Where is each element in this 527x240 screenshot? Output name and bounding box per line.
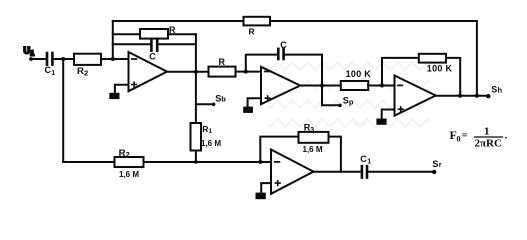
- wire: [195, 151, 197, 163]
- svg-text:R: R: [119, 148, 126, 159]
- resistor R2: [74, 54, 101, 78]
- wire: [261, 183, 271, 193]
- resistor R2 (1,6M): [115, 148, 144, 179]
- node U4 inverting input junction: [258, 160, 262, 164]
- resistor R3: [299, 123, 329, 154]
- wire: [382, 58, 419, 86]
- wire: [62, 59, 64, 162]
- svg-text:2: 2: [84, 68, 88, 77]
- svg-text:100 K: 100 K: [346, 69, 372, 79]
- svg-text:0: 0: [457, 135, 461, 144]
- node Sh output: [486, 85, 502, 99]
- wire top feedback line: [113, 20, 477, 22]
- wire: [195, 34, 197, 123]
- svg-text:C: C: [149, 52, 156, 62]
- node junction: [194, 160, 198, 164]
- svg-text:C: C: [280, 40, 287, 50]
- wire C rail: [113, 43, 196, 45]
- svg-text:2: 2: [126, 150, 130, 159]
- svg-text:1,6 M: 1,6 M: [303, 145, 323, 154]
- svg-text:R: R: [219, 57, 226, 67]
- svg-text:1: 1: [367, 159, 371, 166]
- svg-text:1: 1: [484, 126, 490, 138]
- wire: [382, 110, 395, 119]
- capacitor C1: [45, 53, 56, 77]
- wire: [236, 71, 262, 73]
- wire: [329, 137, 341, 172]
- formula F0 = 1/(2 pi RC): [450, 126, 508, 150]
- wire: [115, 85, 129, 93]
- wire: [368, 171, 434, 173]
- wire: [368, 85, 394, 87]
- capacitor C (U2 feedback): [278, 40, 287, 59]
- node U2 inverting input junction: [244, 70, 248, 74]
- svg-text:S: S: [432, 159, 438, 169]
- node U3 inverting input junction: [380, 84, 384, 88]
- resistor R (global feedback): [244, 17, 271, 37]
- capacitor C1 (output): [360, 154, 371, 178]
- svg-text:R: R: [249, 27, 255, 37]
- node U1 output junction: [194, 70, 198, 74]
- svg-text:R: R: [169, 25, 176, 35]
- svg-text:R: R: [77, 66, 84, 77]
- node B junction: [111, 57, 115, 61]
- wire: [285, 55, 322, 86]
- svg-text:S: S: [343, 95, 349, 105]
- op-amp U3: [395, 76, 436, 116]
- wire: [101, 58, 129, 60]
- node junction: [458, 94, 462, 98]
- resistor R (U1 feedback): [140, 25, 176, 39]
- wire: [167, 71, 209, 73]
- capacitor C (U1 feedback): [149, 39, 157, 62]
- svg-text:.: .: [505, 129, 508, 141]
- node U2 output junction: [320, 84, 324, 88]
- op-amp U1: [129, 52, 168, 91]
- wire: [300, 85, 341, 87]
- node U1 input terminal: [24, 46, 35, 61]
- op-amp U4: [271, 150, 314, 194]
- node junction: [475, 94, 479, 98]
- resistor R1: [191, 123, 222, 151]
- wire: [112, 21, 114, 59]
- svg-text:2πRC: 2πRC: [475, 137, 502, 149]
- svg-text:h: h: [498, 86, 503, 95]
- wire: [476, 21, 478, 96]
- svg-text:=: =: [462, 130, 468, 142]
- wire: [31, 58, 46, 60]
- wire: [260, 137, 298, 162]
- node Sr output: [432, 159, 442, 174]
- ground: [376, 119, 386, 125]
- wire bottom rail: [63, 161, 271, 163]
- ground: [243, 107, 253, 113]
- svg-text:1: 1: [209, 128, 213, 135]
- wire: [246, 55, 277, 72]
- wire: [54, 58, 74, 60]
- svg-text:1,6 M: 1,6 M: [119, 170, 139, 179]
- svg-text:p: p: [349, 98, 354, 107]
- ground: [109, 93, 119, 99]
- svg-text:1: 1: [30, 51, 34, 58]
- svg-text:100 K: 100 K: [427, 64, 453, 74]
- svg-text:R: R: [202, 124, 208, 134]
- resistor 100K (series): [341, 69, 372, 90]
- op-amp U2: [261, 67, 300, 104]
- node Sp: [322, 86, 354, 108]
- ground: [256, 193, 266, 200]
- wire: [248, 98, 261, 106]
- svg-text:1: 1: [51, 70, 55, 77]
- node A junction: [61, 57, 65, 61]
- svg-text:r: r: [439, 160, 442, 169]
- resistor R (series): [209, 57, 236, 77]
- node Sb: [196, 93, 226, 106]
- resistor 100K (U3 feedback): [419, 54, 453, 74]
- svg-text:b: b: [221, 94, 226, 103]
- wire: [436, 95, 489, 97]
- svg-text:3: 3: [310, 127, 314, 134]
- wire: [446, 58, 460, 96]
- svg-text:U: U: [24, 46, 31, 56]
- wire: [314, 171, 361, 173]
- wire R rail: [113, 33, 196, 35]
- svg-text:1,6 M: 1,6 M: [201, 139, 221, 148]
- svg-text:S: S: [491, 85, 497, 95]
